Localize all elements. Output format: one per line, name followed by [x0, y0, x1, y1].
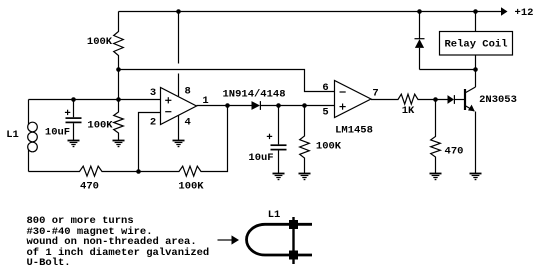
ground under detector cap — [273, 174, 285, 180]
svg-text:U-Bolt.: U-Bolt. — [27, 257, 71, 269]
svg-text:100K: 100K — [316, 141, 342, 153]
pin4 wire + ground — [178, 115, 180, 140]
node top rail / flyback diode — [417, 9, 422, 14]
svg-text:6: 6 — [322, 82, 328, 94]
wire pin8 from +12 rail — [178, 12, 180, 64]
wire pin2 to bottom — [139, 113, 161, 172]
node 470 tap base wire — [433, 97, 438, 102]
wire rail2 bias to pin6 — [119, 70, 335, 92]
wire flyback to collector node — [420, 69, 476, 71]
diode base — [448, 95, 455, 104]
svg-text:5: 5 — [322, 107, 328, 119]
node bias mid / rail2 — [116, 67, 121, 72]
arrow pointer to L1 drawing — [218, 239, 233, 241]
svg-text:470: 470 — [445, 145, 464, 157]
resistor 470 base pulldown — [431, 100, 441, 174]
relay coil box — [475, 12, 477, 32]
node bias / pin3 wire — [116, 97, 121, 102]
svg-text:10uF: 10uF — [45, 126, 70, 138]
wire bottom feedback — [29, 106, 228, 177]
node pin2 tap on bottom wire — [136, 169, 141, 174]
wire +12 top rail — [119, 11, 502, 13]
L1 U-bolt pictorial — [247, 217, 312, 264]
ground under emitter — [470, 174, 482, 180]
node 100K pin5 tap — [302, 103, 307, 108]
node detector cap tap — [276, 103, 281, 108]
svg-text:2: 2 — [150, 116, 156, 128]
transistor 2N3053 — [465, 70, 476, 174]
node top rail / pin8 tap — [176, 9, 181, 14]
ground under lower bias resistor — [113, 141, 125, 147]
ground under 470 — [430, 174, 442, 180]
svg-text:8: 8 — [185, 86, 191, 98]
node collector / relay bottom — [473, 67, 478, 72]
svg-text:L1: L1 — [268, 209, 281, 221]
diode 1N914/4148 — [252, 101, 261, 110]
ground under 100K load — [299, 174, 311, 180]
node 10uF tap — [71, 97, 76, 102]
svg-text:1N914/4148: 1N914/4148 — [222, 89, 285, 101]
resistor 100K lower bias — [114, 100, 124, 141]
svg-text:Relay Coil: Relay Coil — [444, 39, 507, 51]
wire pin7 to 1K — [371, 94, 448, 104]
wire bias midpoint down — [118, 70, 120, 100]
svg-text:10uF: 10uF — [248, 152, 273, 164]
svg-text:100K: 100K — [87, 119, 113, 131]
op-amp LM1458 section A — [161, 88, 197, 125]
svg-text:100K: 100K — [87, 36, 113, 48]
wire pin1 output to pin5 — [197, 105, 252, 107]
note winding instructions — [27, 215, 210, 269]
ground under 10uF input — [68, 141, 80, 147]
+12 supply arrow — [501, 7, 508, 16]
diode flyback across relay — [419, 12, 421, 39]
capacitor 10uF detector — [267, 106, 287, 174]
node feedback tap — [225, 103, 230, 108]
svg-text:1K: 1K — [402, 105, 415, 117]
svg-text:100K: 100K — [178, 180, 204, 192]
svg-text:3: 3 — [150, 87, 156, 99]
svg-text:+12: +12 — [515, 7, 534, 19]
resistor 100K pin5 load — [300, 106, 310, 174]
resistor 100K upper bias — [114, 12, 124, 70]
wire L1 node to pin3 — [29, 99, 161, 101]
op-amp LM1458 section B — [335, 81, 372, 118]
inductor L1 — [28, 100, 38, 172]
node top rail / relay coil — [473, 9, 478, 14]
capacitor 10uF input — [65, 100, 82, 141]
svg-text:2N3053: 2N3053 — [479, 94, 517, 106]
svg-text:7: 7 — [372, 88, 378, 100]
svg-text:L1: L1 — [6, 129, 19, 141]
svg-text:470: 470 — [80, 181, 99, 193]
svg-text:LM1458: LM1458 — [335, 125, 373, 137]
svg-text:4: 4 — [185, 116, 191, 128]
